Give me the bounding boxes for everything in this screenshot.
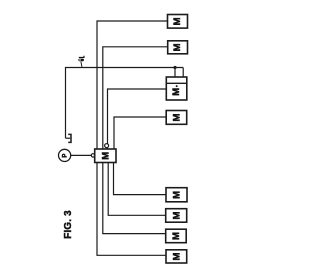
label RL with leader xyxy=(81,62,82,67)
motor M7 xyxy=(166,229,187,243)
input terminal bump on central unit xyxy=(91,154,94,157)
central unit M (distributor) xyxy=(95,149,116,163)
junction dot on feed line xyxy=(173,66,176,69)
motor M6 xyxy=(166,209,187,223)
svg-text:M: M xyxy=(171,252,182,260)
wire w7 (unit bottom terminal 3 to motor M7) xyxy=(103,163,166,234)
terminal dot left in M3' strip xyxy=(174,78,177,81)
svg-text:M: M xyxy=(172,43,183,51)
wire w8 (unit bottom terminal 4 to motor M8) xyxy=(97,163,166,256)
svg-text:M: M xyxy=(171,88,182,96)
wire w1 (unit top terminal 1 to motor M1) xyxy=(97,21,168,149)
connector bracket J1 xyxy=(68,134,71,142)
wire from P to central unit xyxy=(71,154,92,156)
svg-text:M: M xyxy=(100,152,111,160)
motor M2 xyxy=(168,41,188,54)
svg-text:M: M xyxy=(171,212,182,220)
wire w3 (unit top terminal 3 to motor M3) xyxy=(108,89,167,149)
motor M5 xyxy=(166,188,187,202)
svg-text:M: M xyxy=(172,191,183,199)
svg-text:M: M xyxy=(172,113,183,121)
svg-text:FIG. 3: FIG. 3 xyxy=(63,210,74,239)
terminal dot right in M3' strip xyxy=(182,78,185,81)
svg-text:P: P xyxy=(63,154,69,158)
wire RL net (left riser and top feed line 74 to motor M3' terminals) xyxy=(66,68,184,139)
motor M4 xyxy=(166,111,187,125)
wire w6 (unit bottom terminal 2 to motor M6) xyxy=(108,163,166,216)
rotated R blob of label xyxy=(78,59,84,62)
motor M3' with terminal strip xyxy=(166,77,187,100)
wire stub left into terminal of M3' xyxy=(174,68,176,80)
wire stub right into terminal of M3' xyxy=(182,68,184,80)
svg-text:M: M xyxy=(171,232,182,240)
wire w4 (unit top terminal 4 to motor M4) xyxy=(114,117,166,149)
motor M1 xyxy=(168,15,188,29)
wire w5 (unit bottom terminal 1 to motor M5) xyxy=(114,163,167,195)
wire bottom hook to connector bracket xyxy=(66,137,71,139)
svg-text:M: M xyxy=(172,17,183,25)
motor M8 xyxy=(166,250,187,263)
small bump terminal on wire w3 at unit top xyxy=(105,144,109,148)
rotated L stroke of label xyxy=(79,56,84,58)
pump P circle xyxy=(59,149,71,161)
wire w2 (unit top terminal 2 to motor M2) xyxy=(103,47,168,149)
